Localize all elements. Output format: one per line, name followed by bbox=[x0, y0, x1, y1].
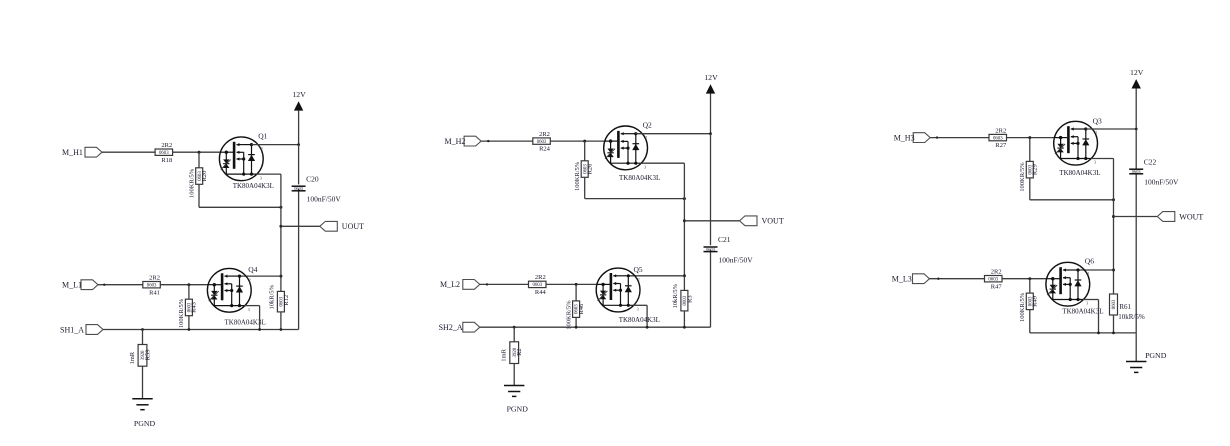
svg-text:M_L2: M_L2 bbox=[440, 280, 460, 289]
svg-text:R12: R12 bbox=[283, 295, 290, 306]
svg-text:PGND: PGND bbox=[1145, 351, 1167, 360]
svg-text:PGND: PGND bbox=[507, 404, 529, 413]
svg-text:M_H1: M_H1 bbox=[62, 148, 83, 157]
svg-text:3: 3 bbox=[637, 307, 639, 312]
svg-text:C22: C22 bbox=[1144, 157, 1157, 166]
svg-text:Q4: Q4 bbox=[248, 265, 257, 274]
svg-text:Q3: Q3 bbox=[1093, 117, 1102, 126]
svg-text:R61: R61 bbox=[1119, 303, 1131, 311]
svg-text:100KR/5%: 100KR/5% bbox=[574, 161, 581, 191]
svg-text:2R2: 2R2 bbox=[995, 127, 1006, 134]
svg-text:100KR/5%: 100KR/5% bbox=[1019, 162, 1026, 192]
svg-text:1mR: 1mR bbox=[129, 351, 136, 364]
svg-text:0603: 0603 bbox=[537, 140, 547, 145]
svg-text:3: 3 bbox=[1086, 301, 1088, 306]
svg-text:R24: R24 bbox=[539, 146, 551, 153]
svg-text:2: 2 bbox=[1087, 271, 1089, 276]
svg-text:0603: 0603 bbox=[706, 247, 716, 252]
svg-text:2R2: 2R2 bbox=[535, 274, 546, 281]
svg-text:2R2: 2R2 bbox=[991, 269, 1002, 276]
svg-text:12V: 12V bbox=[292, 90, 306, 99]
svg-text:2: 2 bbox=[1095, 130, 1097, 135]
svg-text:12V: 12V bbox=[704, 73, 718, 82]
svg-text:R43: R43 bbox=[191, 302, 198, 313]
svg-text:SH1_A: SH1_A bbox=[60, 325, 84, 334]
svg-text:0603: 0603 bbox=[159, 151, 169, 156]
svg-text:UOUT: UOUT bbox=[342, 222, 364, 231]
svg-text:2: 2 bbox=[645, 135, 647, 140]
svg-text:PGND: PGND bbox=[134, 419, 156, 428]
svg-text:2R2: 2R2 bbox=[539, 131, 550, 138]
svg-text:100nF/50V: 100nF/50V bbox=[719, 256, 754, 265]
svg-text:R47: R47 bbox=[991, 283, 1003, 290]
svg-text:M_H3: M_H3 bbox=[894, 133, 915, 142]
svg-text:3: 3 bbox=[644, 164, 646, 169]
svg-text:M_L3: M_L3 bbox=[892, 275, 912, 284]
svg-text:R41: R41 bbox=[149, 289, 160, 296]
svg-text:100KR/5%: 100KR/5% bbox=[178, 298, 185, 328]
svg-text:R3: R3 bbox=[687, 295, 694, 303]
svg-text:100KR/5%: 100KR/5% bbox=[565, 300, 572, 330]
svg-text:0603: 0603 bbox=[147, 284, 157, 289]
svg-text:R59: R59 bbox=[145, 349, 152, 360]
svg-text:0603: 0603 bbox=[1132, 169, 1142, 174]
svg-text:0603: 0603 bbox=[294, 186, 304, 191]
svg-text:2: 2 bbox=[261, 146, 263, 151]
svg-text:TK80A04K3L: TK80A04K3L bbox=[233, 182, 274, 190]
svg-text:0603: 0603 bbox=[988, 278, 998, 283]
svg-text:R26: R26 bbox=[587, 163, 594, 175]
svg-text:TK80A04K3L: TK80A04K3L bbox=[619, 174, 660, 182]
svg-text:Q6: Q6 bbox=[1085, 257, 1094, 266]
svg-text:12V: 12V bbox=[1130, 68, 1144, 77]
svg-text:100nF/50V: 100nF/50V bbox=[307, 195, 342, 204]
svg-text:0603: 0603 bbox=[533, 283, 543, 288]
svg-text:1mR: 1mR bbox=[501, 348, 508, 361]
svg-text:WOUT: WOUT bbox=[1179, 212, 1203, 221]
svg-text:SH2_A: SH2_A bbox=[439, 323, 463, 332]
svg-text:0603: 0603 bbox=[1112, 299, 1117, 309]
svg-text:R49: R49 bbox=[1032, 296, 1039, 307]
svg-text:10kR/5%: 10kR/5% bbox=[1118, 313, 1145, 321]
svg-text:100nF/50V: 100nF/50V bbox=[1144, 178, 1179, 187]
svg-text:2R2: 2R2 bbox=[149, 275, 160, 282]
svg-text:Q1: Q1 bbox=[258, 131, 267, 140]
svg-text:TK80A04K3L: TK80A04K3L bbox=[1059, 169, 1100, 177]
svg-text:R18: R18 bbox=[161, 157, 172, 164]
svg-text:R46: R46 bbox=[578, 303, 585, 315]
svg-text:3: 3 bbox=[248, 307, 250, 312]
svg-text:3: 3 bbox=[1094, 160, 1096, 165]
svg-text:10kR/5%: 10kR/5% bbox=[672, 283, 679, 308]
svg-text:100KR/5%: 100KR/5% bbox=[188, 168, 195, 198]
svg-text:Q2: Q2 bbox=[643, 121, 652, 130]
svg-text:2: 2 bbox=[249, 277, 251, 282]
svg-text:M_H2: M_H2 bbox=[445, 137, 466, 146]
svg-text:2: 2 bbox=[638, 277, 640, 282]
svg-text:C20: C20 bbox=[306, 174, 319, 183]
svg-text:0603: 0603 bbox=[993, 136, 1003, 141]
svg-text:C21: C21 bbox=[718, 235, 731, 244]
svg-text:R44: R44 bbox=[535, 289, 547, 296]
svg-text:Q5: Q5 bbox=[634, 265, 643, 274]
svg-text:2R2: 2R2 bbox=[161, 142, 172, 149]
svg-text:TK80A04K3L: TK80A04K3L bbox=[619, 316, 660, 324]
svg-text:3: 3 bbox=[260, 175, 262, 180]
svg-text:R20: R20 bbox=[201, 171, 208, 182]
svg-text:10kR/5%: 10kR/5% bbox=[269, 284, 276, 309]
svg-text:100KR/5%: 100KR/5% bbox=[1019, 292, 1026, 322]
svg-text:TK80A04K3L: TK80A04K3L bbox=[1062, 308, 1103, 316]
svg-text:R2: R2 bbox=[516, 348, 523, 356]
svg-text:R27: R27 bbox=[995, 142, 1007, 149]
svg-text:M_L1: M_L1 bbox=[62, 281, 82, 290]
svg-text:R29: R29 bbox=[1032, 164, 1039, 175]
svg-text:VOUT: VOUT bbox=[762, 217, 784, 226]
